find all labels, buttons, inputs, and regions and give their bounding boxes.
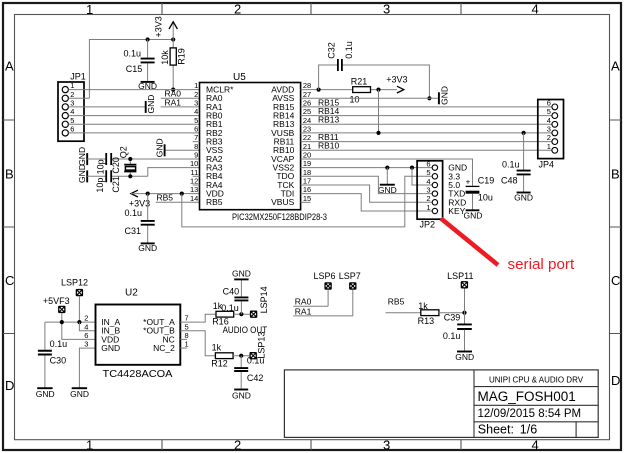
wire +5V row to U2 IN_A (45, 321, 96, 323)
pin stub U5 RA4 pin12 (193, 184, 200, 186)
ground under C39 (457, 351, 472, 353)
svg-text:+3V3: +3V3 (154, 16, 164, 37)
svg-text:10: 10 (190, 159, 198, 168)
svg-text:R13: R13 (418, 316, 435, 326)
junction crystal bottom (128, 174, 132, 178)
power symbol +3V3 (arrow right) (397, 86, 404, 93)
ground under C30 (37, 387, 52, 389)
svg-text:GND: GND (232, 269, 251, 279)
svg-text:1: 1 (426, 203, 430, 212)
wire R13 to LSP11 riser (439, 312, 465, 314)
svg-text:UNIPI CPU & AUDIO DRV: UNIPI CPU & AUDIO DRV (489, 375, 584, 384)
svg-text:+3V3: +3V3 (129, 198, 150, 208)
svg-text:2: 2 (547, 133, 551, 142)
svg-text:RB5: RB5 (157, 193, 174, 203)
svg-text:4: 4 (70, 107, 74, 116)
svg-text:C39: C39 (444, 313, 461, 323)
solder pad LSP11 (447, 271, 473, 289)
junction at R19 top rail (171, 37, 175, 41)
pin stub U2 NC_2 pin1 (180, 347, 187, 349)
capacitor C32 loop AVDD to AVSS (319, 65, 430, 98)
svg-text:10p: 10p (95, 178, 105, 193)
ground under C15 (141, 81, 155, 83)
wire U2 OUT_B to R12 (180, 331, 215, 356)
svg-text:21: 21 (303, 142, 311, 151)
wire LSP12 to +5V row (78, 296, 80, 322)
pin stub U2 NC pin8 (180, 338, 187, 340)
svg-text:MAG_FOSH001: MAG_FOSH001 (478, 389, 576, 404)
svg-text:LSP7: LSP7 (339, 271, 361, 281)
svg-text:GND: GND (138, 243, 157, 253)
wire U5 RA3 jog to crystal bottom (148, 168, 200, 177)
svg-text:RB5: RB5 (206, 197, 223, 207)
svg-text:PIC32MX250F128BDIP28-3: PIC32MX250F128BDIP28-3 (232, 212, 327, 222)
wire LSP11 riser (464, 289, 466, 324)
capacitor C48 (523, 133, 525, 192)
svg-text:0.1u: 0.1u (221, 303, 239, 313)
wire net RB5 to R13 (386, 312, 421, 314)
svg-text:+3V3: +3V3 (386, 75, 407, 85)
svg-text:R21: R21 (351, 77, 368, 87)
svg-text:JP1: JP1 (70, 71, 86, 81)
capacitor C21 (106, 170, 111, 182)
svg-text:R12: R12 (211, 358, 228, 368)
wire R12 to LSP13 (233, 355, 250, 357)
svg-text:JP2: JP2 (420, 219, 436, 229)
resistor R19 (172, 65, 174, 90)
svg-text:5: 5 (547, 107, 551, 116)
svg-text:A: A (611, 59, 620, 74)
svg-text:1: 1 (86, 437, 93, 452)
svg-text:GND: GND (514, 192, 533, 202)
power symbol +3V3 (arrow up) (172, 23, 174, 48)
svg-text:GND: GND (463, 210, 482, 220)
svg-text:2: 2 (84, 314, 88, 323)
net label RA0 stub (U5 pin2) (161, 97, 200, 99)
svg-text:1: 1 (185, 340, 189, 349)
svg-text:6: 6 (84, 331, 88, 340)
svg-text:15: 15 (303, 194, 311, 203)
title block (284, 370, 598, 438)
svg-text:Q2: Q2 (119, 146, 129, 158)
junction +5VF3 on +5V row (60, 320, 64, 324)
svg-text:VBUS: VBUS (271, 197, 294, 207)
solder pad LSP14 (250, 286, 269, 318)
svg-text:GND: GND (70, 389, 89, 399)
svg-text:1: 1 (547, 142, 551, 151)
svg-text:RB13: RB13 (318, 115, 340, 125)
junction LSP12 on +5V row (77, 320, 81, 324)
ground (rotated) at AVSS (438, 92, 440, 104)
svg-text:4: 4 (194, 107, 198, 116)
capacitor C42 (240, 356, 242, 389)
svg-text:LSP14: LSP14 (259, 286, 269, 313)
svg-text:serial port: serial port (508, 256, 575, 273)
ground under C31 (141, 242, 155, 244)
svg-text:B: B (611, 167, 620, 182)
svg-text:10u: 10u (478, 192, 493, 202)
wire net RB11 (U5 pin22 to JP4 pin2) (301, 141, 552, 143)
svg-text:19: 19 (303, 159, 311, 168)
svg-text:C15: C15 (126, 64, 143, 74)
wire VUSB +3V3 row (U5 pin23 to JP4 pin3) (301, 132, 552, 134)
solder pad LSP7 (339, 271, 361, 290)
ground under C42 (234, 389, 248, 391)
junction GND stem (385, 166, 389, 170)
svg-text:C20: C20 (111, 157, 121, 174)
junction C40 tap (239, 312, 243, 316)
pin stub U5 RB3 pin7 (193, 141, 200, 143)
svg-text:10: 10 (350, 95, 360, 105)
svg-text:3: 3 (70, 99, 74, 108)
ground (rotated) at U5 VSS pin8 (165, 149, 200, 151)
junction VDD riser to JP2 (180, 192, 184, 196)
svg-text:16: 16 (303, 185, 311, 194)
wire U5 VSS2 pin19 to JP2 pin6 GND (301, 167, 433, 169)
svg-text:GND: GND (232, 391, 251, 401)
svg-text:GND: GND (77, 164, 87, 183)
svg-text:10p: 10p (96, 159, 106, 174)
solder pad LSP6 (314, 271, 336, 290)
junction at C15 top (146, 37, 150, 41)
svg-text:D: D (611, 373, 620, 388)
IC U2 TC4428ACOA (84, 287, 188, 380)
connector JP2 (417, 159, 467, 229)
resistor R13 (421, 310, 439, 316)
svg-text:1: 1 (86, 2, 93, 17)
wire net RA1 to LSP7 (293, 290, 353, 316)
ground (rotated) left of C21 (86, 170, 88, 182)
svg-text:LSP11: LSP11 (447, 271, 473, 281)
svg-text:RA1: RA1 (165, 97, 182, 107)
svg-text:3: 3 (194, 99, 198, 108)
svg-text:0.1u: 0.1u (50, 339, 68, 349)
ground above C40 (inverted) (234, 278, 248, 280)
capacitor C30 (44, 322, 46, 388)
svg-text:C31: C31 (124, 226, 141, 236)
svg-text:GND: GND (101, 343, 120, 353)
net label RA1 stub (U5 pin3) (161, 106, 200, 108)
svg-text:U5: U5 (233, 72, 246, 83)
svg-text:C42: C42 (247, 373, 264, 383)
IC U5 PIC32 (190, 72, 327, 222)
svg-text:7: 7 (194, 133, 198, 142)
ground under C48 (517, 192, 531, 194)
junction C32 right on AVSS (427, 96, 431, 100)
svg-text:JP4: JP4 (539, 159, 555, 169)
svg-text:23: 23 (303, 125, 311, 134)
wire branch to U2 IN_B (79, 322, 95, 331)
svg-text:3: 3 (383, 437, 390, 452)
svg-text:8: 8 (194, 142, 198, 151)
svg-text:13: 13 (190, 185, 198, 194)
svg-text:12/09/2015 8:54 PM: 12/09/2015 8:54 PM (478, 408, 582, 420)
wire U2 OUT_A to R16 (180, 314, 216, 322)
wire GND to C21 to crystal bottom (87, 175, 148, 177)
svg-text:C21: C21 (111, 176, 121, 193)
wire VDD +3V3 to JP2 pin5 (3.3) (182, 176, 433, 227)
resistor R21 (353, 87, 371, 93)
wire U5 VCAP pin20 to C19 (301, 159, 473, 186)
svg-text:3: 3 (426, 185, 430, 194)
svg-text:0.1u: 0.1u (124, 208, 142, 218)
pin stub U5 RB4 pin11 (193, 175, 200, 177)
wire U5 AVDD pin28 to R21 (301, 89, 397, 91)
svg-text:2: 2 (234, 2, 241, 17)
wire net RB13 (U5 pin24 to JP4 pin4) (301, 123, 552, 125)
pin stub U5 VBUS pin15 (301, 201, 311, 203)
svg-text:22: 22 (303, 133, 311, 142)
wire JP1 pin2 to +3V3 rail (68, 97, 89, 99)
ground under U2 pin3 (72, 387, 87, 389)
annotation red arrow to serial port (441, 219, 498, 266)
svg-text:C: C (611, 273, 620, 288)
svg-text:R19: R19 (177, 48, 187, 65)
wire branch to JP2 pin4 (5.0) (412, 168, 432, 185)
svg-text:28: 28 (303, 81, 311, 90)
svg-text:6: 6 (426, 159, 430, 168)
capacitor C31 (147, 194, 149, 243)
net label RB5 stub (U5 pin14) (156, 201, 200, 203)
svg-text:8: 8 (185, 331, 189, 340)
svg-text:4: 4 (532, 437, 539, 452)
svg-text:C19: C19 (478, 175, 495, 185)
junction C31 top (146, 192, 150, 196)
svg-text:RA0: RA0 (295, 297, 312, 307)
svg-text:14: 14 (190, 194, 198, 203)
ground (rotated) left of C20 (86, 153, 88, 165)
power pad +5VF3 (43, 296, 70, 313)
ground at JP1 pin3 (rotated) (145, 101, 147, 113)
wire U5 VDD pin13 (131, 193, 200, 195)
svg-text:D: D (5, 378, 14, 393)
wire net RB14 (U5 pin25 to JP4 pin5) (301, 115, 552, 117)
svg-text:GND: GND (154, 138, 164, 157)
capacitor C39 (457, 324, 472, 329)
solder pad LSP12 (61, 278, 88, 297)
wire JP1 pin4 to U5 RB0 (68, 115, 199, 117)
capacitor C40 (240, 280, 242, 314)
ground below VSS2 row (386, 168, 388, 185)
svg-text:1k: 1k (212, 343, 222, 353)
svg-text:0.1u: 0.1u (247, 355, 265, 365)
resistor R12 (215, 353, 233, 359)
wire net RA0 to LSP6 (293, 290, 328, 307)
svg-text:C48: C48 (501, 176, 518, 186)
svg-text:3: 3 (547, 125, 551, 134)
wire net RB10 (U5 pin21 to JP4 pin1) (301, 149, 552, 151)
svg-text:1: 1 (194, 81, 198, 90)
svg-text:3: 3 (383, 2, 390, 17)
wire JP1 pin6 to U5 RB2 (68, 132, 199, 134)
svg-text:RB10: RB10 (318, 141, 340, 151)
solder pad LSP13 (250, 332, 267, 360)
wire +3V3 rail top-left (89, 40, 173, 99)
connector JP4 (538, 99, 564, 170)
wire U5 TCK pin17 to JP2 pin2 RXD (301, 185, 433, 202)
svg-text:26: 26 (303, 99, 311, 108)
svg-text:6: 6 (70, 125, 74, 134)
junction R21 right / +3V3 riser (376, 88, 380, 92)
svg-text:C40: C40 (223, 287, 240, 297)
wire U5 TDO pin18 to JP2 pin3 TXD (301, 176, 433, 193)
junction C39 tap (462, 311, 466, 315)
svg-text:0.1u: 0.1u (443, 331, 461, 341)
connector JP1 (58, 71, 86, 141)
svg-text:+: + (466, 177, 471, 186)
svg-text:GND: GND (440, 86, 450, 105)
svg-text:1k: 1k (418, 301, 428, 311)
svg-text:18: 18 (303, 168, 311, 177)
junction +3V3 riser on VUSB row (376, 131, 380, 135)
junction C42 tap (239, 354, 243, 358)
svg-text:RB5: RB5 (388, 297, 405, 307)
svg-text:6: 6 (547, 99, 551, 108)
svg-text:GND: GND (146, 95, 156, 114)
capacitor C15 (147, 40, 149, 82)
svg-text:0.1u: 0.1u (344, 41, 354, 59)
svg-text:+5VF3: +5VF3 (43, 296, 70, 306)
svg-text:GND: GND (36, 389, 55, 399)
svg-text:LSP12: LSP12 (61, 278, 88, 288)
svg-text:7: 7 (185, 314, 189, 323)
crystal Q2 (129, 159, 131, 176)
wire JP1 pin1 to U5 MCLR (68, 89, 199, 91)
capacitor C19 (electrolytic 10u) (466, 185, 480, 187)
wire U5 TDI pin16 to JP2 pin1 KEY (301, 194, 433, 211)
wire net RB15 (U5 pin26 to JP4 pin6) (301, 106, 552, 108)
svg-text:0.1u: 0.1u (502, 159, 520, 169)
svg-text:2: 2 (234, 437, 241, 452)
wire U2 GND pin3 to ground (79, 348, 95, 388)
wire U5 AVSS pin27 to GND (301, 97, 439, 99)
ground under C19 (466, 209, 480, 211)
junction AVDD / C32 left (317, 88, 321, 92)
wire +5VF3 riser to VDD row (62, 313, 96, 339)
svg-text:5: 5 (426, 168, 430, 177)
svg-text:C: C (5, 273, 14, 288)
svg-text:C32: C32 (327, 42, 337, 59)
svg-text:LSP6: LSP6 (314, 271, 336, 281)
svg-text:25: 25 (303, 107, 311, 116)
svg-text:GND: GND (77, 147, 87, 166)
power symbol +3V3 (arrow left) at U5 VDD (131, 190, 138, 197)
svg-text:1/6: 1/6 (520, 423, 537, 437)
svg-text:10k: 10k (160, 50, 170, 65)
wire JP1 pin5 to U5 RB1 (68, 123, 199, 125)
svg-text:NC_2: NC_2 (153, 343, 175, 353)
svg-text:Sheet:: Sheet: (478, 423, 514, 437)
svg-text:11: 11 (191, 168, 199, 177)
svg-text:6: 6 (194, 125, 198, 134)
svg-text:0.1u: 0.1u (123, 48, 141, 58)
svg-text:KEY: KEY (448, 206, 465, 216)
svg-text:3: 3 (84, 340, 88, 349)
wire JP1 pin3 to GND (68, 106, 145, 108)
junction C48 on VUSB row (522, 131, 526, 135)
resistor R16 (216, 311, 234, 317)
svg-text:B: B (5, 167, 14, 182)
junction crystal top (128, 157, 132, 161)
wire GND to C20 to crystal top (U5 RA2) (87, 158, 199, 160)
capacitor C20 (106, 153, 111, 165)
wire R16 to LSP14 (234, 313, 251, 315)
svg-text:1: 1 (70, 81, 74, 90)
wire +3V3 riser to VUSB (378, 90, 380, 133)
junction JP2 pin4 branch (410, 166, 414, 170)
svg-text:C30: C30 (50, 356, 67, 366)
svg-text:TC4428ACOA: TC4428ACOA (103, 368, 173, 380)
svg-text:RA1: RA1 (295, 306, 312, 316)
svg-text:GND: GND (455, 352, 474, 362)
junction R19 bottom on MCLR wire (171, 88, 175, 92)
svg-text:2: 2 (426, 194, 430, 203)
svg-text:A: A (5, 59, 14, 74)
svg-text:4: 4 (532, 2, 539, 17)
svg-text:U2: U2 (125, 287, 138, 298)
